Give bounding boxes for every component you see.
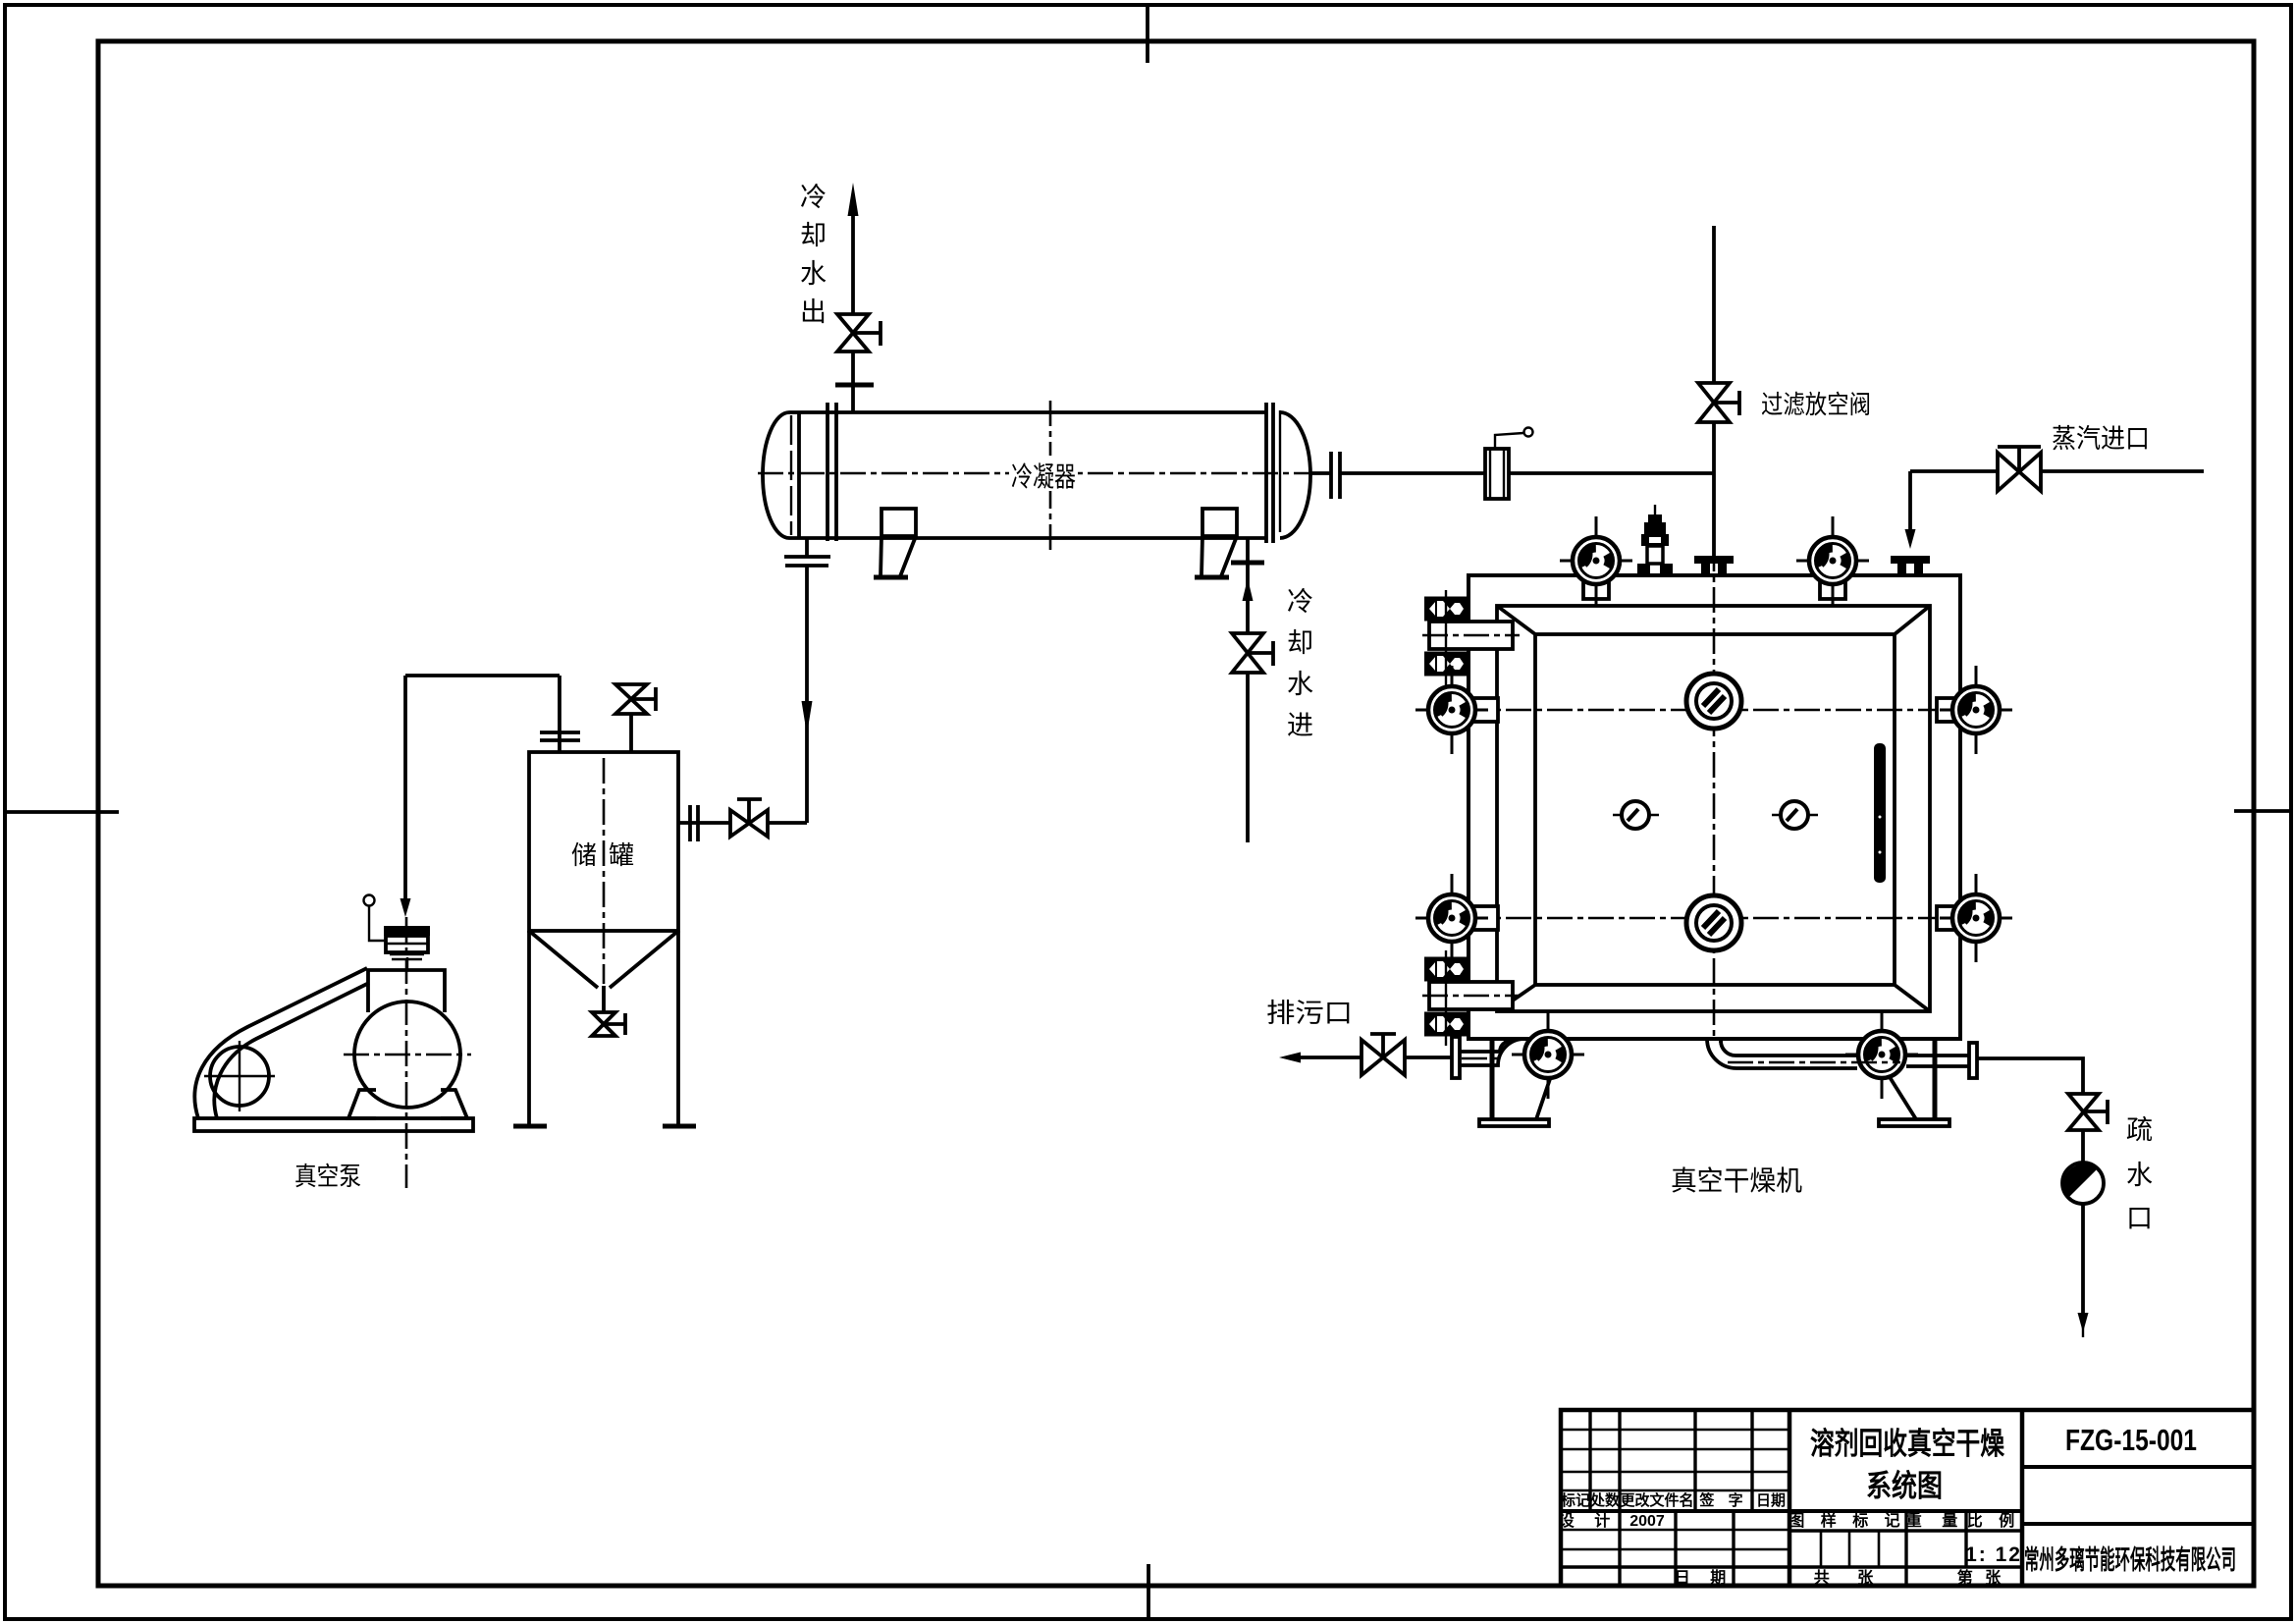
revision table columns bbox=[1590, 1410, 1752, 1510]
bottom row line across left and middle bbox=[1561, 1565, 2022, 1568]
centering tick right bbox=[2234, 809, 2292, 813]
pipe above valve with arrow 冷却水出 bbox=[848, 183, 859, 314]
svg-text:共 张: 共 张 bbox=[1814, 1569, 1885, 1587]
pump belt guard bbox=[194, 968, 369, 1118]
label 冷凝器 bbox=[1009, 456, 1078, 492]
pump body circle bbox=[344, 1001, 471, 1108]
svg-text:蒸汽进口: 蒸汽进口 bbox=[2052, 424, 2150, 454]
label 冷却水出 vertical bbox=[800, 183, 827, 327]
pipe valve to riser corner bbox=[768, 821, 807, 825]
svg-text:系统图: 系统图 bbox=[1866, 1469, 1943, 1503]
title block main verticals bbox=[1789, 1410, 2022, 1586]
trap outlet line with arrow bbox=[2078, 1204, 2089, 1337]
lower-left table rows bbox=[1561, 1530, 1789, 1549]
drain elbow pipe bottom left bbox=[1459, 1038, 1524, 1065]
tank cone bottom bbox=[529, 931, 678, 1012]
cooling water inlet nozzle (right bottom) bbox=[1231, 538, 1264, 633]
svg-text:1: 12: 1: 12 bbox=[1965, 1543, 2022, 1566]
right section rows bbox=[2022, 1467, 2254, 1524]
drain flange bbox=[1452, 1037, 1460, 1078]
bottom clamp handwheel left bbox=[1512, 1010, 1584, 1099]
drawing title 溶剂回收真空干燥系统图 bbox=[1810, 1427, 2005, 1503]
outlet pipe to filter bbox=[1340, 471, 1485, 475]
door handle bbox=[1874, 743, 1886, 883]
tank inlet stub from pump line bbox=[558, 676, 561, 752]
svg-text:FZG-15-001: FZG-15-001 bbox=[2065, 1423, 2197, 1457]
svg-text:罐: 罐 bbox=[609, 840, 634, 870]
scale header row bbox=[1789, 1511, 2022, 1586]
flange pair on tank inlet bbox=[540, 732, 580, 740]
centering tick bottom bbox=[1147, 1564, 1150, 1621]
condenser right saddle bbox=[1195, 509, 1237, 577]
tank centerline bbox=[603, 758, 606, 984]
drain line with arrow bbox=[1279, 1053, 1362, 1063]
condenser right head bbox=[1280, 410, 1310, 538]
condensate line to trap bbox=[1977, 1058, 2083, 1094]
centering tick left bbox=[4, 810, 119, 814]
drain valve 排污口 bbox=[1362, 1034, 1452, 1075]
left clamp lower bbox=[1415, 874, 1498, 962]
svg-text:真空泵: 真空泵 bbox=[294, 1162, 361, 1191]
svg-text:过滤放空阀: 过滤放空阀 bbox=[1761, 390, 1871, 419]
svg-text:更改文件名: 更改文件名 bbox=[1620, 1491, 1693, 1509]
condenser left girth flange bbox=[828, 403, 836, 541]
scale sub cells bbox=[1821, 1531, 1879, 1567]
globe valve tank inlet line bbox=[730, 799, 768, 837]
right clamp upper bbox=[1937, 666, 2012, 754]
svg-text:日期: 日期 bbox=[1756, 1491, 1786, 1509]
top clamp handwheel right bbox=[1796, 516, 1869, 605]
tank legs bbox=[513, 931, 696, 1126]
cooling water outlet pipe (top nozzle) bbox=[835, 352, 874, 412]
drop pipe to tank line with arrow bbox=[802, 566, 813, 823]
pump separator vent with gauge bbox=[364, 895, 387, 942]
left leg bbox=[1479, 1039, 1551, 1126]
tank cone drain valve bbox=[592, 1012, 625, 1036]
tank vent valve on top bbox=[615, 684, 656, 752]
upper left hinge bbox=[1422, 590, 1520, 685]
svg-text:标记: 标记 bbox=[1560, 1491, 1590, 1509]
steam inlet drop pipe with arrow bbox=[1905, 471, 1916, 549]
svg-text:冷: 冷 bbox=[800, 183, 827, 212]
svg-text:冷凝器: 冷凝器 bbox=[1011, 461, 1076, 492]
filter vent valve riser bbox=[1712, 226, 1716, 383]
sight glass upper bbox=[1686, 674, 1741, 729]
scale header texts bbox=[1789, 1511, 2020, 1530]
dryer door outer face bbox=[1497, 606, 1930, 1011]
svg-text:口: 口 bbox=[2126, 1204, 2153, 1233]
dryer horizontal centerline lower clamps bbox=[1423, 917, 2010, 920]
steam trap bbox=[2062, 1163, 2104, 1204]
door corner bevels bbox=[1497, 606, 1930, 1011]
pump vertical centerline bbox=[405, 917, 408, 1188]
svg-text:常州多璃节能环保科技有限公司: 常州多璃节能环保科技有限公司 bbox=[2024, 1544, 2236, 1575]
condenser left bottom nozzle bbox=[805, 538, 809, 557]
svg-text:疏: 疏 bbox=[2126, 1115, 2153, 1145]
svg-text:日 期: 日 期 bbox=[1675, 1568, 1734, 1587]
design row texts bbox=[1559, 1511, 1734, 1587]
small port left bbox=[1613, 801, 1659, 829]
pipe below valve 冷却水进 bbox=[1246, 673, 1250, 842]
pump base plate bbox=[194, 1118, 473, 1131]
condensate outlet flange right bbox=[1969, 1043, 1977, 1078]
pump motor pulley bbox=[204, 1041, 275, 1111]
dryer horizontal centerline upper clamps bbox=[1423, 709, 2010, 712]
lower left hinge bbox=[1422, 950, 1520, 1046]
svg-text:出: 出 bbox=[800, 298, 827, 327]
svg-text:真空干燥机: 真空干燥机 bbox=[1671, 1165, 1802, 1196]
condenser horizontal centerline bbox=[758, 472, 1327, 475]
pipe tank to pump (horizontal) bbox=[405, 674, 560, 677]
svg-text:水: 水 bbox=[2126, 1161, 2153, 1190]
dryer body bbox=[1468, 575, 1960, 1039]
flange pair right outlet bbox=[1331, 452, 1340, 499]
tank outlet nozzle right bbox=[678, 821, 730, 825]
svg-text:比 例: 比 例 bbox=[1967, 1511, 2020, 1530]
svg-text:图 样 标 记: 图 样 标 记 bbox=[1789, 1511, 1905, 1530]
pipe valve to steam trap bbox=[2081, 1130, 2085, 1163]
condensate pipe under dryer bbox=[1707, 1038, 1969, 1068]
svg-text:水: 水 bbox=[800, 259, 827, 289]
steam inlet line bbox=[1910, 469, 2204, 473]
revision header texts bbox=[1560, 1491, 1786, 1509]
dryer main vertical centerline bbox=[1713, 546, 1716, 1041]
pipe filter to dryer junction bbox=[1509, 471, 1714, 475]
dryer door inner panel bbox=[1535, 634, 1895, 985]
condenser vertical centerline bbox=[1049, 401, 1052, 550]
left clamp upper bbox=[1415, 666, 1498, 754]
valve cooling water in bbox=[1232, 633, 1273, 673]
svg-text:水: 水 bbox=[1287, 670, 1313, 699]
pump feet bbox=[348, 1090, 467, 1118]
pipe down to pump with arrow bbox=[400, 676, 411, 917]
valve cooling water out bbox=[837, 314, 881, 352]
svg-text:进: 进 bbox=[1287, 711, 1313, 740]
svg-text:排污口: 排污口 bbox=[1266, 999, 1353, 1028]
condenser right girth flange bbox=[1266, 403, 1273, 543]
svg-text:却: 却 bbox=[1287, 628, 1313, 658]
centering tick top bbox=[1146, 3, 1149, 63]
pump oil separator bbox=[384, 926, 430, 970]
small port right bbox=[1772, 801, 1818, 829]
steam inlet nozzle flange bbox=[1891, 556, 1930, 574]
condenser left head bbox=[763, 412, 799, 538]
safety valve on top bbox=[1637, 505, 1673, 575]
condenser shell bbox=[789, 412, 1266, 538]
lower-left table columns bbox=[1620, 1511, 1734, 1586]
pipe vent valve to dryer top bbox=[1712, 422, 1716, 546]
label 储罐 bbox=[571, 840, 634, 870]
svg-text:2007: 2007 bbox=[1629, 1513, 1665, 1530]
svg-text:设 计: 设 计 bbox=[1559, 1511, 1618, 1530]
flange pair tank outlet bbox=[690, 805, 698, 841]
svg-text:第 张: 第 张 bbox=[1957, 1568, 2004, 1587]
svg-text:却: 却 bbox=[800, 221, 827, 250]
inline filter instrument bbox=[1485, 428, 1533, 500]
bottom clamp handwheel right bbox=[1845, 1010, 1918, 1099]
top nozzle flange (from condenser line) bbox=[1694, 546, 1734, 574]
right clamp lower bbox=[1937, 874, 2012, 962]
svg-text:冷: 冷 bbox=[1287, 587, 1313, 617]
right leg bbox=[1879, 1039, 1949, 1126]
steam inlet valve bbox=[1998, 447, 2041, 491]
svg-text:储: 储 bbox=[571, 840, 597, 870]
label 冷却水进 vertical bbox=[1287, 587, 1313, 740]
tank body bbox=[529, 752, 678, 931]
flange pair on drop pipe bbox=[784, 557, 830, 566]
condenser right outlet nozzle bbox=[1310, 471, 1330, 475]
header separator row line bbox=[1561, 1509, 2022, 1513]
svg-text:处数: 处数 bbox=[1589, 1491, 1621, 1509]
sight glass lower bbox=[1686, 895, 1741, 950]
pump housing bbox=[368, 970, 445, 1012]
svg-text:溶剂回收真空干燥: 溶剂回收真空干燥 bbox=[1810, 1427, 2005, 1461]
title block outer box bbox=[1561, 1410, 2254, 1586]
svg-text:重 量: 重 量 bbox=[1906, 1511, 1965, 1530]
top clamp handwheel left bbox=[1560, 516, 1632, 605]
revision table rows bbox=[1561, 1430, 1789, 1490]
sheet count texts bbox=[1814, 1568, 2004, 1587]
svg-text:签 字: 签 字 bbox=[1698, 1491, 1747, 1509]
filter vent valve 过滤放空阀 bbox=[1698, 383, 1739, 422]
trap isolation valve bbox=[2068, 1094, 2108, 1130]
label 疏水口 vertical bbox=[2126, 1115, 2153, 1233]
condenser left saddle bbox=[874, 509, 916, 577]
